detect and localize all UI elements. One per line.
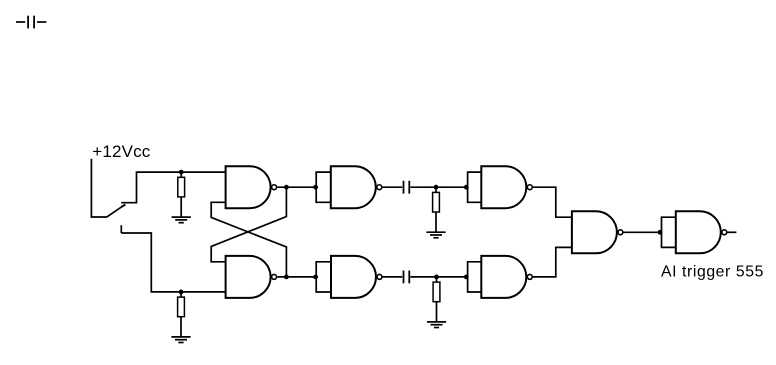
ground under R3	[426, 232, 445, 238]
wire U2A output to C2	[382, 186, 402, 188]
wire U3B output to U2D lower input	[533, 247, 572, 277]
resistor R4	[433, 277, 440, 322]
wire U1A output to U2A input	[277, 186, 316, 188]
capacitor C3 (bottom coupling)	[404, 271, 410, 284]
ground under R4	[427, 322, 446, 328]
switch S1 upper throw contact	[121, 202, 137, 204]
node reset-line / R2 junction	[179, 290, 184, 295]
wire lower throw to reset line	[121, 233, 225, 292]
wire C3 to U3B input	[410, 276, 467, 278]
ground under R2	[171, 337, 190, 343]
resistor R1	[178, 172, 185, 217]
node U1B output	[284, 275, 289, 280]
NAND gate U2D (merge)	[572, 211, 623, 253]
wire U3A output stub	[727, 231, 736, 233]
node set-line / R1 junction	[179, 170, 184, 175]
NAND gate U1A (latch top)	[226, 166, 277, 208]
NAND gate U3A (output inverter)	[676, 211, 727, 253]
node U1A output	[284, 185, 289, 190]
node U2A input junction	[313, 185, 318, 190]
resistor R3	[433, 187, 440, 232]
svg-text:AI trigger 555: AI trigger 555	[661, 263, 764, 280]
wire U2A tied inputs	[316, 172, 331, 202]
wire U1B output to U2B input	[277, 276, 316, 278]
resistor R2	[178, 292, 185, 337]
power label +12Vcc	[92, 142, 150, 161]
node U3A input junction	[658, 230, 663, 235]
wire U2C output to U2D upper input	[533, 187, 572, 217]
wire U3A tied inputs	[662, 217, 676, 247]
node C2/R3 junction	[434, 185, 439, 190]
capacitor C1 (unconnected, top-left)	[16, 16, 46, 29]
switch S1 lower throw contact	[120, 225, 122, 233]
NAND gate U2A (inverter top)	[331, 166, 382, 208]
capacitor C2 (top coupling)	[404, 181, 410, 194]
wire U1A lower input from U1B output	[211, 202, 286, 277]
node U3B input junction	[464, 275, 469, 280]
NAND gate U2B (inverter bottom)	[331, 256, 382, 298]
wire U3B tied inputs	[468, 262, 482, 292]
wire U2B output to C3	[383, 276, 403, 278]
node C3/R4 junction	[434, 275, 439, 280]
wire U2C tied inputs	[468, 172, 482, 202]
ground under R1	[172, 217, 191, 223]
node U2C input junction	[464, 185, 469, 190]
node U2B input junction	[313, 275, 318, 280]
NAND gate U2C (top)	[481, 166, 532, 208]
label AI trigger 555	[661, 263, 764, 280]
wire U1B upper input from U1A output	[211, 187, 286, 262]
wire C2 to U2C input	[410, 186, 467, 188]
wire upper throw to set line	[137, 172, 226, 203]
wire U2D output to U3A input	[623, 231, 661, 233]
wire +12Vcc to switch pole	[91, 159, 107, 217]
svg-text:+12Vcc: +12Vcc	[92, 142, 150, 161]
NAND gate U1B (latch bottom)	[226, 256, 277, 298]
switch S1 lever	[107, 205, 126, 218]
NAND gate U3B (bottom)	[481, 256, 532, 298]
wire U2B tied inputs	[316, 262, 331, 292]
